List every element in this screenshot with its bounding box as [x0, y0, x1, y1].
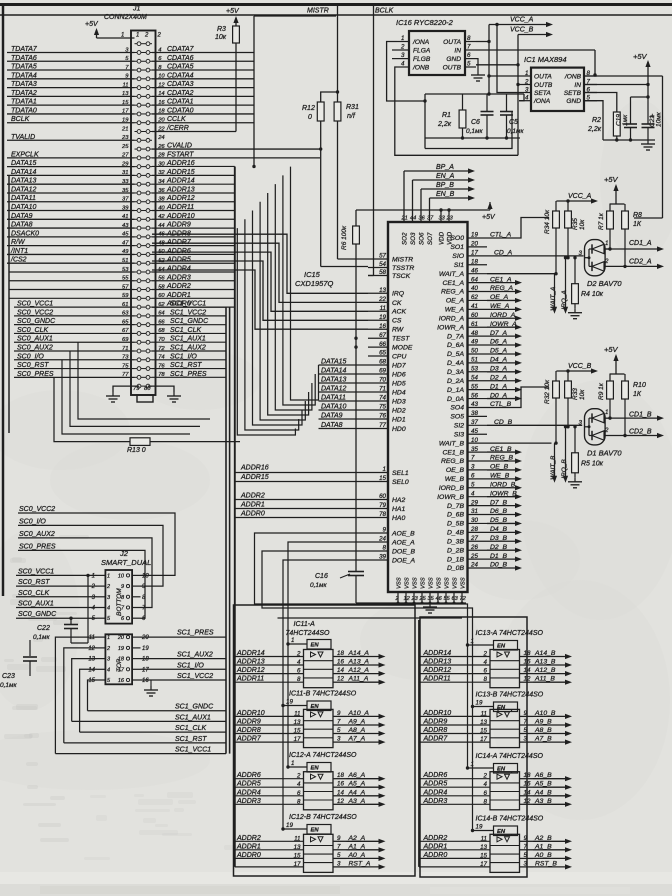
wire DATA10 — [7, 210, 135, 212]
svg-text:ADDR2: ADDR2 — [423, 835, 448, 842]
wire VCC_B down — [517, 35, 519, 156]
wire ADDR1 to IC15 — [235, 508, 368, 510]
svg-text:BP_A: BP_A — [436, 164, 454, 171]
svg-text:FLGB: FLGB — [413, 56, 431, 63]
svg-text:17: 17 — [480, 861, 487, 868]
svg-text:19: 19 — [118, 646, 124, 652]
wire DOE_B — [262, 551, 473, 707]
svg-text:IC12-A 74HCT244SO: IC12-A 74HCT244SO — [289, 752, 357, 759]
svg-text:3: 3 — [579, 250, 583, 257]
svg-text:FLGA: FLGA — [413, 47, 431, 54]
resistor R13 0 — [54, 377, 130, 441]
wire IC16 OUTB — [476, 64, 518, 66]
wire DATA8 — [7, 227, 135, 229]
wire IC16 /ONB route — [395, 67, 518, 155]
svg-text:D_7A: D_7A — [447, 333, 464, 340]
svg-text:D_0A: D_0A — [447, 396, 464, 403]
wire J1 pin79 to ground — [113, 386, 139, 392]
svg-text:ADDR8: ADDR8 — [236, 727, 261, 734]
wire DSACK0 — [7, 236, 135, 238]
svg-text:SC1_CLK: SC1_CLK — [175, 725, 206, 732]
wire DATA12 — [7, 192, 135, 194]
svg-text:BP_B: BP_B — [436, 182, 454, 189]
ground under J1 right — [173, 392, 175, 396]
wire DATA bus 11 — [260, 202, 305, 420]
svg-text:1: 1 — [291, 637, 294, 644]
svg-text:C23: C23 — [2, 673, 15, 680]
wire TDATA2 — [7, 95, 135, 97]
svg-text:SO7: SO7 — [427, 232, 434, 245]
connector J1 pins — [137, 42, 141, 46]
svg-text:4: 4 — [484, 781, 488, 788]
svg-text:0: 0 — [308, 114, 312, 121]
svg-text:WE_A: WE_A — [445, 307, 465, 314]
wire R31 to MISTR pin — [337, 121, 339, 259]
svg-text:3: 3 — [337, 736, 341, 743]
svg-text:D_0B: D_0B — [447, 565, 464, 572]
wire /CS2 — [7, 262, 135, 264]
wire DATA bus 14 — [283, 175, 315, 405]
wire CDATA6 — [152, 60, 254, 62]
svg-text:0,1мк: 0,1мк — [310, 582, 327, 589]
svg-text:19: 19 — [286, 699, 293, 706]
svg-text:1: 1 — [605, 240, 608, 247]
svg-text:VCC_B: VCC_B — [568, 363, 592, 370]
wire DOE_A — [283, 560, 368, 706]
wire J2 corner — [64, 648, 97, 743]
svg-text:79: 79 — [133, 386, 140, 392]
wire SC1_VCC2 — [152, 315, 226, 317]
wire SC0_RST — [14, 368, 135, 370]
svg-text:2: 2 — [157, 33, 162, 39]
wire SC0_VCC1 — [14, 306, 135, 308]
svg-text:14: 14 — [524, 667, 531, 674]
svg-text:IOWR_B: IOWR_B — [437, 494, 464, 501]
ground at J2 — [150, 686, 152, 690]
wire /ONB to right — [584, 75, 663, 77]
svg-text:R31: R31 — [346, 104, 359, 111]
svg-text:C16: C16 — [315, 573, 328, 580]
wire R/W — [7, 245, 135, 247]
wire DATA13 — [7, 183, 135, 185]
wire CDATA7 — [152, 51, 254, 53]
svg-text:5: 5 — [524, 852, 528, 859]
svg-text:IC15: IC15 — [304, 270, 321, 279]
svg-text:C22: C22 — [37, 625, 50, 632]
svg-text:R34 10к: R34 10к — [544, 209, 551, 234]
svg-text:1К: 1К — [633, 391, 642, 398]
svg-text:4: 4 — [297, 781, 301, 788]
svg-text:SI3: SI3 — [454, 431, 464, 438]
svg-text:3: 3 — [579, 419, 583, 426]
svg-text:R10: R10 — [633, 382, 646, 389]
svg-text:4: 4 — [484, 659, 488, 666]
wire SC0 bus corners — [62, 360, 190, 434]
svg-text:D_6B: D_6B — [447, 512, 464, 519]
wire to MISTR — [338, 258, 369, 260]
svg-text:14: 14 — [88, 667, 95, 673]
wire MISTR vertical — [337, 5, 339, 93]
svg-text:16: 16 — [337, 781, 344, 788]
svg-text:12: 12 — [524, 676, 531, 683]
svg-text:D_5B: D_5B — [447, 521, 464, 528]
svg-text:19: 19 — [476, 700, 483, 707]
svg-text:IN: IN — [454, 47, 461, 54]
svg-text:OUTA: OUTA — [443, 39, 461, 46]
svg-text:17: 17 — [142, 667, 149, 673]
svg-text:2: 2 — [296, 651, 301, 658]
IC16 pin3 stub — [392, 58, 397, 60]
svg-text:17: 17 — [480, 736, 487, 743]
wire left bus vertical — [8, 175, 10, 433]
svg-text:SEL1: SEL1 — [392, 470, 409, 477]
wire SC1_I/O — [152, 359, 226, 361]
wire SC0_PRES — [14, 376, 135, 378]
svg-text:19: 19 — [142, 646, 149, 652]
svg-text:/ONB: /ONB — [412, 64, 430, 71]
svg-text:IC11-B 74HCT244SO: IC11-B 74HCT244SO — [289, 691, 357, 698]
svg-text:6: 6 — [297, 790, 301, 797]
svg-text:TSSTR: TSSTR — [392, 265, 414, 272]
wire SC0_AUX2 — [14, 350, 135, 352]
svg-text:R6 100к: R6 100к — [341, 225, 348, 250]
svg-text:WAIT_B: WAIT_B — [439, 440, 465, 447]
svg-text:ADDR6: ADDR6 — [423, 772, 448, 779]
svg-text:SI2: SI2 — [454, 423, 464, 430]
svg-text:10: 10 — [142, 573, 149, 579]
svg-text:R32 10к: R32 10к — [544, 379, 551, 404]
svg-text:HD0: HD0 — [392, 426, 406, 433]
svg-text:6: 6 — [484, 668, 488, 675]
svg-text:+5V: +5V — [604, 345, 619, 354]
svg-text:IC12-B 74HCT244SO: IC12-B 74HCT244SO — [289, 814, 357, 821]
svg-text:13: 13 — [480, 719, 487, 726]
svg-text:+: + — [650, 111, 655, 120]
svg-text:SC1_RST: SC1_RST — [175, 736, 207, 743]
wire AOE_B to IC13 EN — [255, 533, 468, 645]
wire AOE_A to IC11 EN — [288, 542, 368, 644]
svg-text:11: 11 — [481, 710, 487, 717]
svg-text:0,1мк: 0,1мк — [466, 128, 483, 135]
svg-text:R2: R2 — [592, 117, 601, 124]
ground right top — [647, 140, 649, 144]
wire WAIT_A — [487, 273, 555, 275]
svg-text:46: 46 — [436, 596, 443, 602]
ground at IC16 — [477, 71, 479, 75]
IC15 ground rail — [356, 602, 466, 604]
wire SC0_VCC2 — [14, 315, 135, 317]
svg-text:11: 11 — [481, 835, 487, 842]
svg-text:OE_A: OE_A — [446, 298, 465, 305]
svg-text:16: 16 — [118, 678, 125, 684]
svg-text:12: 12 — [88, 646, 95, 652]
svg-text:15: 15 — [294, 852, 301, 859]
svg-text:ADDR2: ADDR2 — [240, 493, 265, 500]
svg-text:3: 3 — [524, 860, 528, 867]
connector bottom tab — [137, 395, 153, 402]
wire MAX894 GND down — [584, 101, 603, 140]
wires J1 rows 53-59 to left bus — [9, 271, 135, 273]
svg-text:14: 14 — [337, 789, 344, 796]
svg-text:10к: 10к — [579, 219, 586, 230]
svg-text:VSS: VSS — [429, 577, 435, 589]
wire ADDR2 to IC15 — [235, 499, 368, 501]
IC16 pin2 stub — [392, 49, 397, 51]
svg-text:5: 5 — [337, 727, 341, 734]
svg-text:55: 55 — [444, 596, 451, 602]
svg-text:D_2A: D_2A — [447, 378, 464, 385]
svg-text:REG_A: REG_A — [441, 289, 465, 296]
svg-text:25: 25 — [121, 144, 129, 150]
svg-text:17: 17 — [294, 861, 301, 868]
svg-text:VSS: VSS — [453, 577, 459, 589]
svg-text:VCC_A: VCC_A — [568, 193, 592, 200]
svg-text:CE1_B: CE1_B — [442, 449, 464, 456]
wire J2 corner — [88, 680, 98, 711]
svg-text:18: 18 — [337, 650, 344, 657]
wire CDATA1 — [152, 104, 254, 106]
svg-text:D_3A: D_3A — [447, 369, 464, 376]
svg-text:VCC_B: VCC_B — [510, 27, 534, 34]
svg-text:SC0_I/O: SC0_I/O — [19, 518, 46, 525]
svg-text:16: 16 — [142, 678, 149, 684]
svg-text:DOE_B: DOE_B — [392, 548, 416, 555]
svg-text:HD3: HD3 — [392, 398, 406, 405]
svg-text:1: 1 — [136, 33, 139, 39]
svg-text:VSS: VSS — [413, 577, 419, 589]
svg-text:HD5: HD5 — [392, 380, 406, 387]
svg-text:D_6A: D_6A — [447, 342, 464, 349]
wire /CERR — [152, 131, 236, 133]
wire CDATA0 — [152, 113, 254, 115]
J2 BOTTOM block — [105, 570, 132, 624]
wire TDATA0 — [7, 113, 135, 115]
svg-text:7: 7 — [524, 843, 528, 850]
svg-text:IC14-B 74HCT244SO: IC14-B 74HCT244SO — [476, 816, 544, 823]
svg-text:ADDR6: ADDR6 — [236, 772, 261, 779]
svg-text:1: 1 — [471, 638, 474, 645]
svg-text:OUTB: OUTB — [443, 64, 462, 71]
wire DATA bus 8 — [237, 228, 295, 435]
wire ADDR rows to bus — [152, 165, 235, 167]
buffer group A outline — [234, 605, 416, 876]
svg-text:R1: R1 — [442, 112, 451, 119]
svg-text:36: 36 — [419, 216, 426, 222]
wire RC net to /ONA — [425, 93, 524, 95]
svg-text:HD6: HD6 — [392, 371, 406, 378]
svg-text:VCC_A: VCC_A — [510, 17, 534, 24]
svg-text:5: 5 — [337, 852, 341, 859]
svg-text:VSS: VSS — [397, 577, 403, 589]
svg-text:17: 17 — [118, 667, 125, 673]
wire SC1_GNDC — [152, 324, 226, 326]
svg-text:6: 6 — [484, 790, 488, 797]
svg-text:2: 2 — [106, 646, 110, 652]
wire SC1_AUX2 — [152, 350, 226, 352]
svg-text:ADDR8: ADDR8 — [423, 727, 448, 734]
wire DATA11 — [7, 201, 135, 203]
svg-text:ADDR1: ADDR1 — [236, 843, 261, 850]
wire DATA11 — [319, 400, 369, 402]
wire MAX894 OUTB — [518, 84, 519, 86]
svg-text:ADDR10: ADDR10 — [423, 710, 452, 717]
wire DATA14 — [7, 174, 135, 176]
svg-text:VDD: VDD — [439, 231, 446, 245]
diode D2 BAV70 — [585, 240, 606, 276]
wire CCLK — [152, 122, 254, 124]
svg-text:GND: GND — [446, 56, 461, 63]
ground under R4 — [574, 309, 576, 313]
svg-text:IRQ_B: IRQ_B — [561, 459, 568, 479]
svg-text:SC0_VCC1: SC0_VCC1 — [18, 568, 54, 575]
svg-text:REG_B: REG_B — [441, 458, 465, 465]
svg-text:16: 16 — [337, 659, 344, 666]
svg-text:19: 19 — [286, 822, 293, 829]
ground under J1 left — [112, 392, 114, 396]
svg-text:ADDR0: ADDR0 — [240, 511, 265, 518]
wire SC1_AUX1 — [152, 341, 226, 343]
wire TDATA3 — [7, 87, 135, 89]
svg-text:OUTA: OUTA — [534, 73, 552, 80]
svg-text:2,2к: 2,2к — [437, 121, 452, 128]
svg-text:2: 2 — [604, 427, 609, 434]
svg-text:2: 2 — [483, 773, 488, 780]
svg-text:CD2_B: CD2_B — [629, 428, 652, 435]
svg-text:R13 0: R13 0 — [127, 447, 146, 454]
svg-text:13: 13 — [88, 657, 95, 663]
wire WAIT_B — [487, 442, 552, 444]
svg-text:ADDR14: ADDR14 — [236, 650, 265, 657]
svg-text:SIO: SIO — [452, 253, 464, 260]
svg-text:7: 7 — [337, 719, 341, 726]
wire CDATA5 — [152, 69, 254, 71]
wire BCLK — [7, 122, 135, 124]
wire MAX894 OUTA — [489, 75, 519, 77]
svg-text:15: 15 — [294, 728, 301, 735]
svg-text:+5V: +5V — [604, 175, 619, 184]
svg-text:ADDR2: ADDR2 — [236, 835, 261, 842]
svg-text:D_2B: D_2B — [447, 547, 464, 554]
svg-text:D_4A: D_4A — [447, 360, 464, 367]
svg-text:ADDR5: ADDR5 — [423, 781, 448, 788]
wire SC0_CLK — [14, 332, 135, 334]
svg-text:D_5A: D_5A — [447, 351, 464, 358]
svg-text:80: 80 — [144, 386, 151, 392]
wire J2 corner — [80, 669, 97, 732]
wire TVALID — [7, 139, 135, 141]
svg-text:HA1: HA1 — [392, 506, 405, 513]
wire to TSSTR — [321, 266, 368, 268]
svg-text:R35: R35 — [572, 218, 579, 230]
svg-text:8: 8 — [484, 798, 488, 805]
SC1 bus double line — [225, 307, 227, 753]
svg-text:VSS: VSS — [461, 577, 467, 589]
svg-text:63: 63 — [452, 596, 459, 602]
svg-text:EN: EN — [311, 643, 320, 649]
wire DATA bus 12 — [268, 193, 309, 415]
svg-text:18: 18 — [118, 657, 125, 663]
svg-text:19: 19 — [476, 824, 483, 831]
wire DATA12 — [319, 391, 369, 393]
svg-text:OUTB: OUTB — [534, 82, 553, 89]
svg-text:SC0_VCC2: SC0_VCC2 — [19, 506, 55, 513]
svg-text:SETB: SETB — [564, 90, 582, 97]
svg-text:15: 15 — [88, 678, 95, 684]
svg-text:18: 18 — [142, 657, 149, 663]
wire DATA9 — [319, 418, 369, 420]
svg-text:16: 16 — [524, 781, 531, 788]
svg-text:CE1_A: CE1_A — [442, 280, 464, 287]
svg-text:WAIT_A: WAIT_A — [439, 271, 465, 278]
svg-text:VSS: VSS — [421, 577, 427, 589]
svg-text:21: 21 — [121, 126, 128, 132]
svg-text:20: 20 — [117, 635, 125, 641]
svg-text:ADDR13: ADDR13 — [236, 659, 265, 666]
svg-text:13: 13 — [480, 844, 487, 851]
svg-text:RW: RW — [392, 327, 404, 334]
svg-text:ADDR3: ADDR3 — [423, 798, 448, 805]
svg-text:11: 11 — [294, 835, 300, 842]
svg-text:HA0: HA0 — [392, 515, 405, 522]
svg-text:11: 11 — [89, 635, 95, 641]
svg-text:SI1: SI1 — [454, 262, 464, 269]
svg-text:IC11-A: IC11-A — [294, 621, 316, 628]
wire VCC_A down — [488, 25, 490, 95]
svg-text:SO3: SO3 — [410, 232, 417, 245]
ground under IC15 — [429, 603, 431, 607]
wire DATA bus 13 — [275, 184, 312, 410]
svg-text:R3: R3 — [217, 26, 226, 33]
svg-text:+5V: +5V — [633, 52, 648, 61]
svg-text:TSCK: TSCK — [392, 273, 411, 280]
svg-text:SC1_VCC1: SC1_VCC1 — [175, 747, 211, 754]
wire DATA14 — [319, 373, 369, 375]
svg-text:ADDR1: ADDR1 — [423, 843, 448, 850]
svg-text:ADDR1: ADDR1 — [240, 502, 265, 509]
svg-text:7: 7 — [337, 843, 341, 850]
svg-text:CD2_A: CD2_A — [629, 259, 652, 266]
svg-text:9: 9 — [121, 584, 124, 590]
svg-text:2,2к: 2,2к — [587, 126, 602, 133]
svg-text:2: 2 — [106, 584, 110, 590]
svg-text:IORD_B: IORD_B — [439, 485, 465, 492]
wire vertical at top — [253, 16, 255, 166]
svg-text:ADDR0: ADDR0 — [236, 852, 261, 859]
svg-text:1К: 1К — [633, 221, 642, 228]
J2 TOP block — [105, 634, 132, 684]
svg-text:IC14-A 74HCT244SO: IC14-A 74HCT244SO — [476, 753, 544, 760]
svg-text:HD7: HD7 — [392, 362, 406, 369]
svg-text:D_1B: D_1B — [447, 556, 464, 563]
svg-text:C5: C5 — [509, 119, 518, 126]
svg-text:SC1_AUX1: SC1_AUX1 — [175, 714, 211, 721]
top bus line — [0, 14, 672, 16]
svg-text:SO2: SO2 — [402, 232, 409, 245]
svg-text:5: 5 — [524, 727, 528, 734]
svg-text:ADDR16: ADDR16 — [240, 465, 269, 472]
resistor R31 n/f — [334, 102, 341, 121]
wire DATA15 — [319, 364, 369, 366]
resistor R12 0 — [321, 92, 338, 102]
svg-text:CONN2X40M: CONN2X40M — [104, 14, 147, 21]
svg-text:IC13-B 74HCT244SO: IC13-B 74HCT244SO — [476, 692, 544, 699]
svg-text:SC0_GNDC: SC0_GNDC — [18, 611, 57, 618]
svg-text:ADDR11: ADDR11 — [236, 676, 264, 683]
svg-text:0,1мк: 0,1мк — [0, 682, 17, 689]
wire bus corner — [152, 243, 368, 302]
wire DATA15 — [7, 166, 135, 168]
wire bus corner — [152, 252, 368, 311]
